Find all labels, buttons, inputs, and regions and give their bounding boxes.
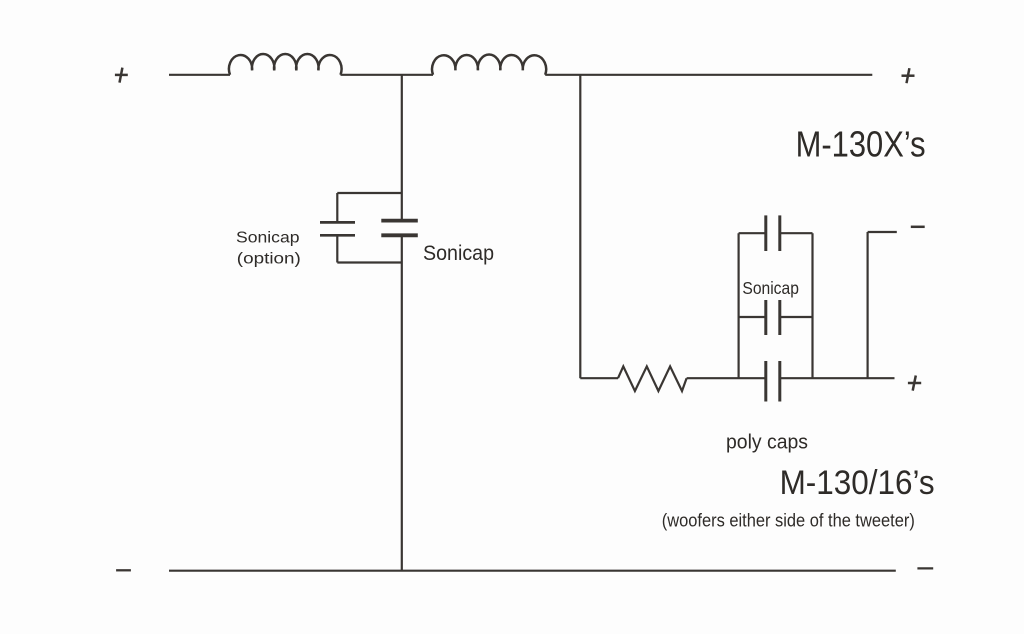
minus terminal branch horizontal [868,231,897,233]
wire option-loop bottom horizontal [337,261,402,263]
wire option-loop left lower vertical [336,235,338,262]
+ terminal right (tweeter) [908,376,921,391]
wire tweeter branch vertical [579,75,581,378]
wire top input segment [169,74,230,76]
minus sign top-right [911,226,925,229]
cap bank right rail [811,233,813,378]
wire option-loop top horizontal [337,192,402,194]
+ terminal top-right [902,68,915,83]
svg-text:M-130X’s: M-130X’s [796,123,926,164]
capacitor C5 (bottom poly cap) plates [766,361,780,402]
wire resistor to cap bank [687,377,766,379]
wire between inductors [341,74,434,76]
inductor L1 [229,54,342,75]
wire shunt vertical lower (C2 bottom plate to bottom rail) [401,235,403,570]
wire cap bank to + terminal [780,377,895,379]
wire shunt vertical upper (to C2 top plate) [401,75,403,221]
inductor L2 [432,54,546,74]
svg-text:Sonicap: Sonicap [423,241,494,265]
capacitor C3 (top poly cap) plates [766,215,780,251]
cap bank top rail (left part) [739,232,766,234]
cap bank middle rail (left part) [739,316,766,318]
capacitor C4 (middle poly cap) plates [766,300,780,335]
minus sign bottom-right [917,567,933,569]
svg-text:(woofers either side of the tw: (woofers either side of the tweeter) [662,511,915,531]
svg-text:M-130/16’s: M-130/16’s [780,464,935,502]
svg-text:Sonicap: Sonicap [236,230,300,247]
svg-text:poly caps: poly caps [726,431,808,454]
minus terminal branch vertical [866,232,868,378]
capacitor C2 Sonicap plates [381,221,418,236]
wire tweeter branch horizontal to resistor [580,377,618,379]
cap bank left rail [737,233,739,378]
svg-text:Sonicap: Sonicap [742,278,799,298]
wire option-loop left upper vertical [336,193,338,222]
capacitor C1 Sonicap (option) plates [320,222,355,235]
wire bottom return [169,570,896,572]
minus sign bottom-left [116,569,131,571]
cap bank middle rail (right part) [780,316,813,318]
wire top output segment [545,74,872,76]
resistor R1 [618,366,687,391]
svg-text:(option): (option) [237,251,301,268]
cap bank top rail (right part) [780,232,813,234]
+ terminal top-left [115,68,128,83]
